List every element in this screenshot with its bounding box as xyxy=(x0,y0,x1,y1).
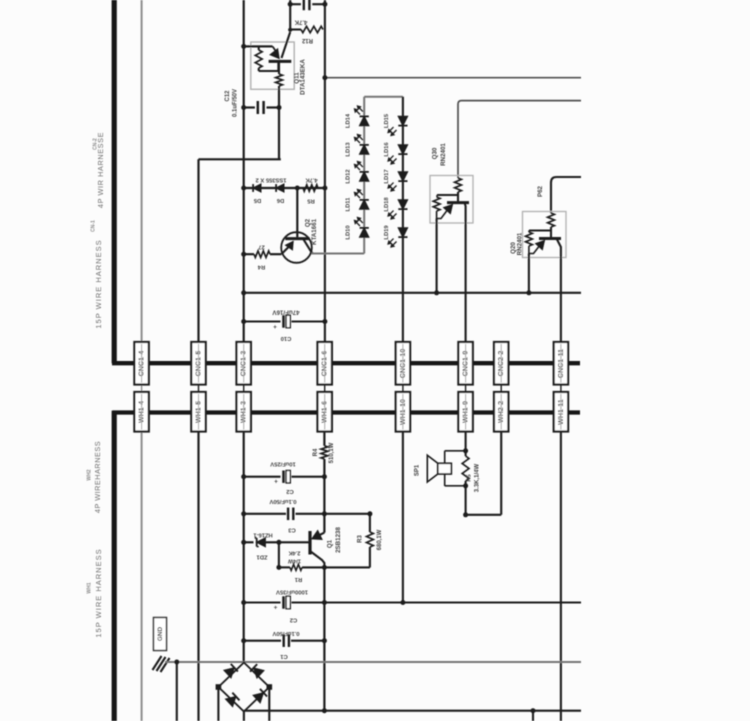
wire Q11 internal input xyxy=(258,45,273,47)
node R1 right / Q1 collector xyxy=(322,565,327,570)
wire WH1-6 down to R4 xyxy=(323,432,325,446)
node C2 right xyxy=(322,474,327,479)
svg-text:0.1uF/50V: 0.1uF/50V xyxy=(272,630,299,636)
Q20 base bar xyxy=(539,237,561,240)
LED LD11 xyxy=(360,200,369,209)
svg-text:LD14: LD14 xyxy=(346,113,352,128)
svg-text:R4: R4 xyxy=(313,448,319,456)
svg-text:RN2401: RN2401 xyxy=(517,232,524,255)
wire WH bus xyxy=(113,410,581,414)
wire WH1-4 gray lead lower xyxy=(141,432,143,721)
capacitor C11 (top, unlabeled) xyxy=(303,0,305,10)
wire cap C11 right xyxy=(312,3,325,5)
wire Q30 base net y=100 xyxy=(458,101,581,178)
wire bottom net y=711 xyxy=(244,710,581,712)
resistor R2 3.3K 1/4W xyxy=(462,456,469,481)
Q1 collector xyxy=(310,551,324,567)
wire pin stripe CNC1-4 xyxy=(141,344,143,383)
wire Q1 collector to R3 bottom xyxy=(324,566,370,568)
node C1 left xyxy=(241,638,246,643)
connector pin CNC2-2 xyxy=(494,342,508,385)
node C12 right xyxy=(277,105,282,110)
wire speaker top link xyxy=(445,450,466,452)
wire stub top left of C11 xyxy=(289,0,291,31)
svg-text:4P WIR HARNESSE: 4P WIR HARNESSE xyxy=(96,132,105,208)
svg-text:0.1uF/50V: 0.1uF/50V xyxy=(233,89,239,117)
svg-text:R4: R4 xyxy=(257,264,265,270)
node C2 left xyxy=(241,474,246,479)
connector pin WH1-3 xyxy=(237,392,251,432)
wire 15P harness thick rail lower xyxy=(112,411,117,721)
diode D5 1SS355 xyxy=(253,184,261,192)
node C10 left xyxy=(241,319,246,324)
Q11 base bar xyxy=(269,60,292,63)
wire pin stripe CNC1-3 xyxy=(243,344,245,383)
svg-text:WH1: WH1 xyxy=(87,582,93,593)
Q2 emitter w/ arrow xyxy=(281,247,288,254)
wire Q30 collector to CNC1-9 xyxy=(465,213,467,342)
wire long net y=602 xyxy=(324,601,581,603)
resistor R5 4.7K xyxy=(303,185,318,191)
wire 15P harness thick rail upper xyxy=(112,0,117,363)
svg-text:C3: C3 xyxy=(288,527,296,533)
node R12/cap left top xyxy=(288,2,293,7)
zener ZD1 HZ16-1 xyxy=(244,541,254,543)
svg-text:27: 27 xyxy=(258,244,264,250)
wire pin stripe CNC1-10 xyxy=(402,344,404,383)
wire pin stripe CNC1-6 xyxy=(324,344,326,383)
wire pin stripe CNC2-2 xyxy=(500,344,502,383)
wire Q11 output down xyxy=(278,89,280,159)
Q11 emitter diagonal xyxy=(282,32,291,58)
LED LD12 xyxy=(360,172,369,181)
capacitor C2 10uF/25V xyxy=(244,476,281,478)
node C3 mid xyxy=(322,511,327,516)
wire Q2 base lead xyxy=(296,188,298,237)
svg-text:0.1uF/50V: 0.1uF/50V xyxy=(269,498,296,504)
transistor Q11 DTA143EKA (digital PNP with bias resistors) xyxy=(251,42,294,89)
wire Q30 emitter down xyxy=(436,219,438,293)
svg-text:D5: D5 xyxy=(253,197,261,203)
wire WH1-3 lower vertical xyxy=(243,432,245,663)
wire R4 to Q1 emitter xyxy=(323,459,325,533)
wire pin stripe WH1-3 xyxy=(243,394,245,430)
node R12/cap right top xyxy=(322,2,327,7)
LED LD19 xyxy=(398,228,407,237)
connector pin WH2-2 xyxy=(494,392,508,432)
wire bridge AC left down xyxy=(217,687,219,721)
wire Q11 R1 bottom xyxy=(258,68,260,71)
capacitor C10 47uF/16V xyxy=(244,320,281,322)
svg-text:1/4W: 1/4W xyxy=(287,558,301,564)
svg-text:C2: C2 xyxy=(286,488,293,494)
transistor Q20 RN2401 (digital PNP) xyxy=(523,212,567,258)
Q20 B-E resistor xyxy=(526,232,533,246)
svg-text:RN2401: RN2401 xyxy=(440,143,447,166)
connector pin WH1-9 xyxy=(458,392,472,432)
wire cap C11 left xyxy=(290,3,301,5)
wire base row y=188 xyxy=(244,187,325,189)
bridge diode upper-right xyxy=(254,668,264,678)
svg-text:GND: GND xyxy=(157,627,164,642)
Q1 base bar (vertical) xyxy=(308,531,311,555)
wire ground net xyxy=(165,661,581,663)
wire LED top link xyxy=(364,96,403,98)
wire WH1-11 down xyxy=(560,432,562,721)
wire Q20 emitter down xyxy=(528,254,530,293)
wire pin stripe WH1-10 xyxy=(402,394,404,430)
node C12 left xyxy=(241,105,246,110)
svg-text:LD16: LD16 xyxy=(384,142,390,157)
wire Q20 collector to CNC1-11 xyxy=(560,252,562,342)
wire CNC1-6 upper vertical xyxy=(324,0,326,342)
Q20 base resistor xyxy=(548,213,555,227)
wire long net y=78 xyxy=(325,77,581,79)
svg-text:LD18: LD18 xyxy=(384,197,390,212)
wire pin stripe WH1-4 xyxy=(141,394,143,430)
wire LED right string down to CNC1-10 xyxy=(402,97,404,342)
svg-text:D6: D6 xyxy=(276,197,284,203)
GND label box xyxy=(154,618,167,651)
svg-text:ZD1: ZD1 xyxy=(256,554,268,560)
svg-text:Q1: Q1 xyxy=(327,539,334,548)
svg-text:R5: R5 xyxy=(467,474,473,481)
svg-text:LD12: LD12 xyxy=(346,169,352,183)
connector pin CNC1-3 xyxy=(237,342,251,385)
wire pin link xyxy=(465,385,467,393)
wire ground branch down xyxy=(176,662,178,721)
wire WH1-9 down xyxy=(465,432,467,451)
LED LD16 xyxy=(398,145,407,154)
bridge diode lower-right xyxy=(253,693,263,703)
bridge diode upper-left xyxy=(224,668,234,678)
svg-text:DTA143EKA: DTA143EKA xyxy=(300,59,307,95)
connector pin CNC1-4 xyxy=(134,342,148,385)
connector pin WH1-11 xyxy=(554,392,568,432)
node R1 left xyxy=(276,565,281,570)
LED LD13 xyxy=(360,145,369,154)
diode D6 1SS355 xyxy=(276,184,284,192)
wire P62 net xyxy=(551,177,581,213)
svg-text:LD15: LD15 xyxy=(384,113,390,128)
svg-text:R1: R1 xyxy=(294,576,302,582)
LED LD14 xyxy=(360,116,369,125)
svg-text:1000uF/35V: 1000uF/35V xyxy=(276,589,308,595)
wire Q30 internal xyxy=(437,194,458,196)
node 1000uF right xyxy=(322,600,327,605)
connector pin WH1-6 xyxy=(318,392,332,432)
node ZD1 left xyxy=(241,540,246,545)
svg-text:SP1: SP1 xyxy=(415,464,421,476)
node output rail bottom xyxy=(322,708,327,713)
svg-text:Q30: Q30 xyxy=(432,147,439,159)
wire CNC1-4 gray lead xyxy=(141,0,143,342)
svg-text:4.7K: 4.7K xyxy=(294,19,307,25)
wire pin stripe WH1-5 xyxy=(198,394,200,430)
wire pin link xyxy=(500,385,502,393)
Q20 collector xyxy=(557,239,561,253)
wire WH2-2 down xyxy=(500,432,502,515)
svg-text:3.3K,1/4W: 3.3K,1/4W xyxy=(475,463,481,492)
node Q30 emitter junction xyxy=(434,290,439,295)
node R5 right junction xyxy=(322,186,327,191)
svg-text:HZ16-1: HZ16-1 xyxy=(253,532,273,538)
node speaker top xyxy=(463,448,468,453)
node y293 left junction xyxy=(241,290,246,295)
wire long net y=293 xyxy=(244,292,581,294)
svg-text:C10: C10 xyxy=(281,335,292,341)
Q1 emitter w/arrow xyxy=(318,533,324,536)
node speaker bottom xyxy=(463,483,468,488)
ground symbol xyxy=(153,656,170,672)
wire Q20 internal xyxy=(529,229,551,231)
wire bottom stub down xyxy=(532,711,534,721)
svg-text:4.7K: 4.7K xyxy=(305,177,318,183)
Q11 base arrow xyxy=(273,46,278,53)
wire CNC1-5/WH1-5 pin link xyxy=(198,385,200,393)
node Q2 base junction xyxy=(295,186,300,191)
wire WH1-5 lower vertical xyxy=(197,432,199,721)
wire Q11 input xyxy=(244,45,258,47)
svg-text:C12: C12 xyxy=(225,90,231,102)
resistor R3 680 1W xyxy=(369,514,371,532)
connector pin CNC1-9 xyxy=(458,342,472,385)
wire pin stripe WH1-6 xyxy=(324,394,326,430)
connector pin CNC1-11 xyxy=(554,342,568,385)
node ground branch xyxy=(174,660,179,665)
Q20 emitter w/arrow xyxy=(529,243,542,254)
node bottom stub junction xyxy=(531,708,536,713)
svg-text:+: + xyxy=(274,605,278,612)
Q2 collector xyxy=(303,239,313,254)
LED LD15 xyxy=(398,116,407,125)
node C10 right xyxy=(322,319,327,324)
Q30 emitter w/arrow xyxy=(437,207,450,219)
svg-text:510,1W: 510,1W xyxy=(329,442,335,463)
Q2 base bar xyxy=(285,237,309,240)
node 1000uF left xyxy=(241,600,246,605)
svg-text:R3: R3 xyxy=(358,535,364,543)
svg-text:10uF/25V: 10uF/25V xyxy=(270,461,296,467)
wire pin stripe WH1-9 xyxy=(465,394,467,430)
svg-text:2SB1238: 2SB1238 xyxy=(335,527,342,553)
wire pin stripe CNC1-11 xyxy=(560,344,562,383)
wire to WH2-2 xyxy=(466,514,502,516)
Q30 collector xyxy=(465,203,466,213)
wire bridge AC right down xyxy=(268,687,270,721)
node D5 left junction xyxy=(241,186,246,191)
svg-text:KTA1661: KTA1661 xyxy=(311,218,318,245)
Q30 base bar xyxy=(447,201,469,204)
LED LD10 xyxy=(360,228,369,237)
capacitor C2 1000uF/35V xyxy=(244,601,281,603)
wire jog Q11 out to CNC1-5 xyxy=(199,158,281,160)
LED LD17 xyxy=(398,172,407,181)
node C3 left xyxy=(241,511,246,516)
svg-text:LD19: LD19 xyxy=(384,225,390,240)
wire WH1-10 down xyxy=(402,432,404,603)
node WH1-10 junction xyxy=(400,600,405,605)
resistor Q11 internal R2 xyxy=(276,74,283,86)
svg-text:47uF/16V: 47uF/16V xyxy=(272,309,300,316)
svg-text:LD10: LD10 xyxy=(346,225,352,239)
capacitor C1 0.1uF/50V xyxy=(244,640,281,642)
wire C3 to R3 top xyxy=(324,513,370,515)
wire CNC bus xyxy=(112,361,580,365)
Q30 B-E resistor xyxy=(433,197,440,211)
capacitor C3 0.1uF/50V xyxy=(244,513,286,515)
node R3 top xyxy=(367,511,372,516)
node Q11 input junction xyxy=(241,44,246,49)
capacitor C12 0.1uF/50V xyxy=(244,106,255,108)
node R2/WH2-2 junction xyxy=(463,512,468,517)
svg-text:CN-1: CN-1 xyxy=(91,220,97,232)
node Q20 emitter junction xyxy=(526,290,531,295)
svg-text:+: + xyxy=(274,479,278,486)
wire output rail down xyxy=(323,567,325,710)
wire pin link xyxy=(324,385,326,393)
connector pin WH1-10 xyxy=(396,392,410,432)
svg-text:+: + xyxy=(273,324,277,331)
svg-text:680,1W: 680,1W xyxy=(377,529,383,550)
wire pin stripe WH1-11 xyxy=(560,394,562,430)
svg-text:LD17: LD17 xyxy=(384,169,390,183)
svg-text:4P WIREHARNESS: 4P WIREHARNESS xyxy=(93,441,102,513)
connector pin CNC1-6 xyxy=(318,342,332,385)
wire speaker bottom link xyxy=(445,485,466,487)
svg-text:1SS355 X 2: 1SS355 X 2 xyxy=(256,177,287,183)
svg-text:LD11: LD11 xyxy=(346,197,352,212)
wire Q2 collector to LED bottom xyxy=(312,253,365,255)
connector pin CNC1-10 xyxy=(396,342,410,385)
resistor Q11 internal R1 xyxy=(255,50,262,68)
LED LD18 xyxy=(398,200,407,209)
wire CNC1-4/WH1-4 pin link xyxy=(141,385,143,393)
svg-text:WH2: WH2 xyxy=(87,469,93,480)
svg-text:15P WIRE HARNESS: 15P WIRE HARNESS xyxy=(94,239,103,328)
wire bridge bottom stub xyxy=(243,712,245,721)
svg-text:2.4K: 2.4K xyxy=(289,550,301,556)
transistor Q30 RN2401 (digital PNP) xyxy=(430,176,473,224)
wire R1 left riser xyxy=(278,542,280,567)
node y78 left junction xyxy=(322,75,327,80)
svg-text:R12: R12 xyxy=(301,37,313,43)
connector pin WH1-4 xyxy=(134,392,148,432)
resistor R4 510 1W xyxy=(321,446,328,459)
wire CNC1-5 upper vertical xyxy=(197,159,199,342)
Q30 base resistor xyxy=(455,178,462,192)
wire pin stripe CNC1-5 xyxy=(198,344,200,383)
wire pin stripe CNC1-9 xyxy=(465,344,467,383)
connector pin CNC1-5 xyxy=(191,342,205,385)
svg-text:C1: C1 xyxy=(280,653,288,659)
svg-text:15P WIRE HARNESS: 15P WIRE HARNESS xyxy=(94,548,103,637)
transistor Q2 KTA1661 xyxy=(281,232,312,263)
node ZD1/R1/base junction xyxy=(276,540,281,545)
wire pin stripe WH2-2 xyxy=(500,394,502,430)
wire pin link xyxy=(402,385,404,393)
bridge rectifier D1-D4 xyxy=(218,663,269,712)
svg-text:C2: C2 xyxy=(290,617,297,623)
speaker SP1 xyxy=(444,451,446,464)
node R4 left junction xyxy=(241,252,246,257)
wire Q1 base xyxy=(279,541,309,543)
node C1 right xyxy=(322,638,327,643)
bridge diode lower-left xyxy=(226,697,236,707)
wire CNC1-3 upper vertical xyxy=(243,0,245,342)
node R12 left xyxy=(288,28,292,32)
resistor R4 27 xyxy=(244,253,254,255)
svg-text:P62: P62 xyxy=(537,185,544,197)
svg-text:LD13: LD13 xyxy=(346,142,352,157)
resistor R12 4.7K xyxy=(290,28,301,30)
LED left string vertical (gray) xyxy=(363,97,365,254)
wire pin link xyxy=(560,385,562,393)
connector pin WH1-5 xyxy=(191,392,205,432)
wire CNC1-3/WH1-3 pin link xyxy=(243,385,245,393)
svg-text:R5: R5 xyxy=(307,198,315,204)
